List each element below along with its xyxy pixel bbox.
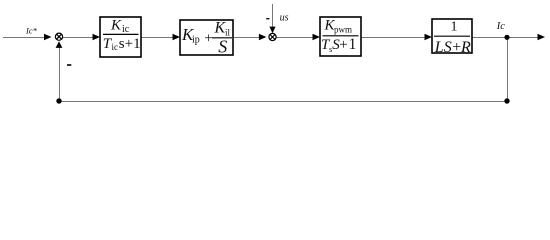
svg-text:Ic*: Ic* (25, 26, 38, 36)
svg-text:1: 1 (451, 20, 458, 35)
svg-text:S: S (218, 36, 227, 56)
svg-text:ip: ip (192, 35, 200, 46)
svg-text:+: + (339, 37, 347, 53)
svg-text:S: S (444, 39, 452, 56)
svg-text:R: R (460, 39, 471, 56)
svg-text:pwm: pwm (334, 24, 352, 34)
svg-text:ic: ic (112, 42, 119, 52)
svg-text:+: + (204, 30, 212, 46)
svg-text:s+1: s+1 (119, 36, 141, 52)
svg-text:K: K (110, 17, 122, 33)
svg-text:Ic: Ic (496, 21, 505, 32)
svg-text:1: 1 (349, 36, 357, 53)
svg-text:+: + (452, 39, 461, 56)
svg-text:ic: ic (122, 24, 130, 35)
svg-text:us: us (280, 13, 289, 24)
svg-text:L: L (434, 39, 444, 56)
